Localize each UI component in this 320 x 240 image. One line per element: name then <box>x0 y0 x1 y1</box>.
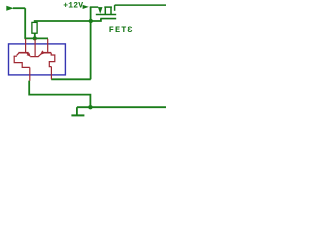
svg-text:FETƐ: FETƐ <box>109 25 134 35</box>
svg-text:+12V: +12V <box>63 2 83 11</box>
